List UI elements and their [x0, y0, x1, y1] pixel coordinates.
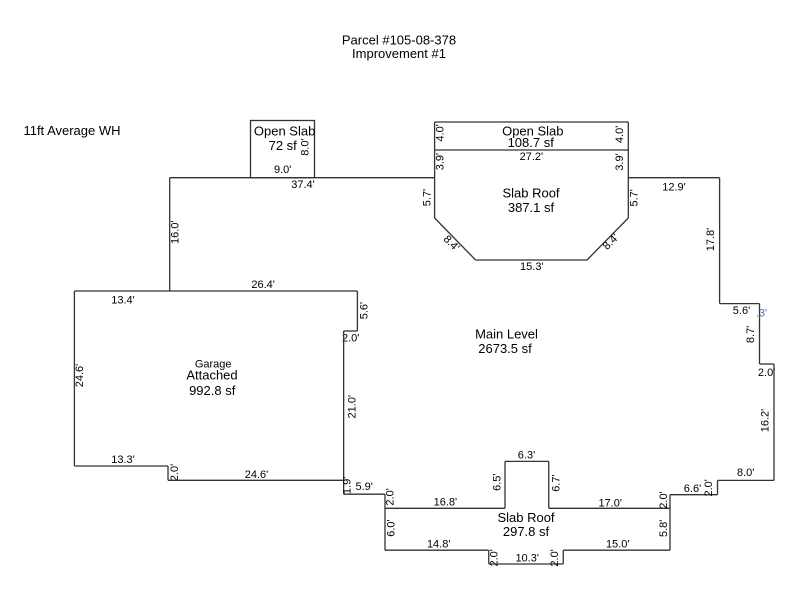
- open slab 108.7 top edge: [435, 121, 629, 123]
- svg-text:2.0': 2.0': [658, 491, 670, 508]
- slab roof right wall: [627, 122, 629, 218]
- svg-text:4.0': 4.0': [614, 126, 626, 143]
- garage right upper wall 5.6: [356, 291, 358, 331]
- slab roof 297.8 labels: [497, 510, 554, 539]
- notch right wall 2.0: [562, 550, 564, 564]
- svg-text:Attached: Attached: [186, 368, 237, 383]
- wall main top right segment 12.9: [628, 177, 719, 179]
- svg-text:5.6': 5.6': [358, 302, 370, 319]
- svg-text:2.0': 2.0': [758, 367, 775, 379]
- wall 8.7: [759, 304, 761, 364]
- wall main left 16.0: [169, 178, 171, 291]
- open slab 108.7 labels: [502, 123, 563, 150]
- svg-text:6.3': 6.3': [518, 449, 535, 461]
- svg-text:297.8 sf: 297.8 sf: [503, 524, 550, 539]
- garage bottom wall 24.6: [168, 479, 344, 481]
- wall 2.0 top jog: [760, 363, 775, 365]
- svg-text:Slab Roof: Slab Roof: [497, 510, 554, 525]
- open slab 72sf labels: [254, 124, 315, 153]
- svg-text:10.3': 10.3': [515, 552, 539, 564]
- svg-text:9.0': 9.0': [274, 164, 291, 176]
- svg-text:8.7': 8.7': [745, 326, 757, 343]
- svg-text:Slab Roof: Slab Roof: [502, 186, 559, 201]
- svg-text:16.8': 16.8': [434, 497, 458, 509]
- svg-text:Main Level: Main Level: [475, 326, 538, 341]
- svg-text:3.9': 3.9': [434, 153, 446, 170]
- svg-text:24.6': 24.6': [245, 469, 269, 481]
- svg-text:Open Slab: Open Slab: [254, 124, 315, 139]
- svg-text:11ft Average WH: 11ft Average WH: [23, 123, 120, 138]
- wall right 17.8: [719, 178, 721, 304]
- svg-text:6.6': 6.6': [684, 483, 701, 495]
- garage top wall: [74, 290, 357, 292]
- svg-text:8.0': 8.0': [299, 138, 311, 155]
- wall left of bottom slab roof: [384, 494, 386, 550]
- svg-text:2.0': 2.0': [703, 479, 715, 496]
- wall 2.0 step: [717, 480, 719, 494]
- main level labels: [475, 326, 538, 356]
- garage left wall 24.6: [73, 291, 75, 466]
- garage bottom left wall 13.3: [74, 465, 168, 467]
- svg-text:108.7 sf: 108.7 sf: [508, 135, 555, 150]
- slab roof left diagonal: [435, 218, 476, 260]
- svg-text:17.0': 17.0': [598, 497, 622, 509]
- svg-text:16.2': 16.2': [760, 409, 772, 433]
- svg-text:15.3': 15.3': [520, 261, 544, 273]
- wall 8.0: [718, 479, 775, 481]
- svg-text:2.0': 2.0': [169, 464, 181, 481]
- main bottom wall 16.8: [385, 507, 505, 509]
- svg-text:2.0': 2.0': [342, 333, 359, 345]
- svg-text:37.4': 37.4': [291, 179, 315, 191]
- svg-text:24.6': 24.6': [74, 364, 86, 388]
- wall 5.6: [720, 303, 760, 305]
- wall right 16.2: [773, 364, 775, 480]
- svg-text:1.9': 1.9': [341, 477, 353, 494]
- garage notch wall 2.0: [344, 330, 358, 332]
- svg-text:8.4': 8.4': [601, 232, 622, 253]
- main bottom wall 17.0: [549, 507, 670, 509]
- svg-text:21.0': 21.0': [346, 395, 358, 419]
- garage step wall 2.0: [167, 466, 169, 480]
- wall 6.6: [670, 494, 718, 496]
- slab roof 387.1 labels: [502, 186, 559, 216]
- garage labels: [186, 359, 237, 398]
- svg-text:5.9': 5.9': [355, 481, 372, 493]
- svg-text:.3': .3': [756, 307, 767, 319]
- wall main top left segment 37.4: [170, 177, 435, 179]
- svg-text:8.0': 8.0': [737, 467, 754, 479]
- svg-text:387.1 sf: 387.1 sf: [508, 200, 555, 215]
- svg-text:8.4': 8.4': [441, 233, 462, 254]
- svg-text:15.0': 15.0': [606, 538, 630, 550]
- bump top wall 6.3: [505, 460, 549, 462]
- svg-text:4.0': 4.0': [434, 124, 446, 141]
- svg-text:3.9': 3.9': [614, 153, 626, 170]
- slab roof bottom edge 15.3: [476, 259, 587, 261]
- slab roof bottom wall 15.0: [563, 549, 670, 551]
- svg-text:13.3': 13.3': [111, 454, 135, 466]
- notch bottom wall 10.3: [489, 563, 564, 565]
- svg-text:13.4': 13.4': [111, 295, 135, 307]
- svg-text:6.0': 6.0': [385, 519, 397, 536]
- svg-text:16.0': 16.0': [169, 220, 181, 244]
- svg-text:5.7': 5.7': [628, 189, 640, 206]
- svg-text:26.4': 26.4': [251, 279, 275, 291]
- svg-text:2.0': 2.0': [385, 488, 397, 505]
- svg-text:992.8 sf: 992.8 sf: [189, 383, 236, 398]
- garage right wall 21.0: [343, 331, 345, 494]
- bump left wall 6.5: [504, 461, 506, 508]
- slab roof bottom wall 14.8: [385, 549, 489, 551]
- wall bottom 5.9: [344, 493, 385, 495]
- svg-text:72 sf: 72 sf: [269, 138, 298, 153]
- svg-text:5.7': 5.7': [421, 189, 433, 206]
- divider open slab / slab roof 27.2: [435, 149, 629, 151]
- svg-text:5.8': 5.8': [658, 520, 670, 537]
- svg-text:5.6': 5.6': [733, 305, 750, 317]
- slab roof right diagonal: [587, 218, 628, 260]
- svg-text:2673.5 sf: 2673.5 sf: [478, 341, 532, 356]
- notch left wall 2.0: [488, 550, 490, 564]
- svg-text:12.9': 12.9': [662, 181, 686, 193]
- svg-text:6.7': 6.7': [550, 474, 562, 491]
- bump right wall 6.7: [548, 461, 550, 508]
- open slab 72sf box: [251, 121, 315, 178]
- title parcel text: [342, 33, 456, 62]
- svg-text:6.5': 6.5': [492, 473, 504, 490]
- slab roof left wall: [434, 122, 436, 218]
- svg-text:2.0': 2.0': [549, 549, 561, 566]
- svg-text:14.8': 14.8': [427, 538, 451, 550]
- svg-text:27.2': 27.2': [520, 151, 544, 163]
- slab roof right wall 5.8: [669, 495, 671, 551]
- svg-text:17.8': 17.8': [705, 228, 717, 252]
- svg-text:Improvement #1: Improvement #1: [352, 46, 446, 61]
